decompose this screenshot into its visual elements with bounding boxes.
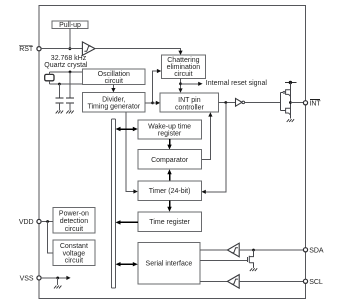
VDD pin	[19, 219, 41, 226]
crystal X1	[45, 72, 54, 84]
wire serial interface to SDA driver gate	[200, 259, 247, 261]
wire SDA line	[239, 249, 303, 251]
wire schmitt output to chattering block	[95, 49, 181, 52]
junction INT output branch	[224, 101, 227, 104]
svg-text:Time register: Time register	[149, 219, 190, 226]
wire divider to chattering / INT pin controller	[145, 71, 158, 103]
schmitt buffer U1 on RST line	[82, 42, 95, 55]
junction pull-up/RST	[69, 47, 72, 50]
arrow timer to time register	[167, 200, 171, 211]
transistor Q2 NMOS	[280, 108, 290, 115]
svg-text:circuit: circuit	[65, 258, 83, 265]
ground for C2	[66, 111, 73, 114]
wire divider to timer	[126, 112, 135, 191]
time register block	[138, 212, 202, 232]
svg-text:circuit: circuit	[105, 78, 123, 85]
capacitor C1	[55, 84, 63, 110]
timer block	[138, 181, 202, 201]
arrow timer to comparator	[167, 169, 171, 181]
oscillation circuit block	[83, 69, 145, 85]
wire crystal bottom to oscillation circuit	[49, 83, 82, 85]
svg-text:Timing generator: Timing generator	[87, 104, 140, 111]
svg-text:INT: INT	[309, 100, 321, 107]
svg-text:SDA: SDA	[309, 247, 324, 254]
INT pin controller block	[160, 93, 219, 112]
RST pin	[19, 45, 41, 53]
wire inverter to output stage	[245, 102, 281, 104]
svg-text:INT pin: INT pin	[178, 97, 201, 104]
constant voltage circuit block	[53, 240, 95, 266]
ground for SDA driver	[250, 268, 257, 271]
INT pin	[303, 99, 321, 107]
svg-text:circuit: circuit	[174, 71, 192, 78]
svg-text:SCL: SCL	[309, 279, 323, 286]
junction crystal bottom / C1	[58, 83, 61, 86]
wire serial interface to SDA schmitt	[200, 249, 228, 251]
VDD rail tick for INT driver	[285, 81, 296, 84]
junction crystal top / C2	[69, 71, 72, 74]
wire chattering to INT pin controller	[180, 78, 182, 89]
svg-text:Divider,: Divider,	[102, 96, 125, 103]
capacitor C2	[66, 72, 74, 111]
pull-up resistor block	[52, 21, 88, 29]
wire divider feed to INT pin controller	[153, 102, 157, 104]
junction VDD branch	[46, 220, 49, 223]
wire serial interface to SCL schmitt	[200, 280, 228, 282]
schmitt buffer U3 SDA input	[227, 243, 239, 257]
svg-text:Internal reset signal: Internal reset signal	[206, 80, 268, 87]
IC boundary box	[39, 6, 306, 299]
wire oscillation to divider	[112, 85, 114, 89]
svg-text:voltage: voltage	[63, 250, 86, 257]
wire pull-up to RST line	[69, 28, 71, 48]
ground for VSS	[54, 286, 61, 289]
transistor Q3 NMOS SDA driver	[247, 250, 253, 268]
wire output to INT pin	[290, 102, 303, 104]
svg-text:register: register	[158, 131, 182, 138]
data bus	[111, 119, 115, 288]
svg-text:Comparator: Comparator	[151, 157, 189, 164]
wire crystal top to oscillation circuit	[49, 71, 82, 73]
junction VSS ground	[56, 277, 59, 280]
svg-text:controller: controller	[175, 104, 204, 111]
wire comparator to INT pin controller	[201, 116, 210, 160]
svg-text:Chattering: Chattering	[167, 57, 199, 64]
svg-text:Power-on: Power-on	[59, 211, 89, 218]
wire VDD to constant voltage	[48, 222, 53, 254]
svg-text:Serial interface: Serial interface	[146, 261, 193, 268]
chattering elimination circuit block	[161, 55, 205, 78]
power-on detection circuit block	[53, 208, 95, 234]
svg-text:VDD: VDD	[19, 219, 34, 226]
VSS pin	[20, 275, 42, 282]
divider timing generator block	[83, 92, 145, 112]
svg-text:VSS: VSS	[20, 275, 34, 282]
junction output node	[289, 101, 292, 104]
svg-text:Oscillation: Oscillation	[98, 71, 130, 78]
svg-text:elimination: elimination	[167, 64, 201, 71]
wake-up time register block	[138, 120, 202, 139]
junction internal reset	[179, 82, 182, 85]
ground for C1	[56, 111, 63, 114]
time register to bus arrow	[116, 220, 138, 224]
svg-text:Wake-up time: Wake-up time	[148, 124, 191, 131]
wire VSS	[41, 277, 67, 279]
junction divider feed	[151, 102, 154, 105]
ground for output stage	[287, 119, 294, 122]
comparator block	[138, 150, 202, 170]
junction SDA driver	[252, 249, 255, 252]
schmitt buffer U4 SCL input	[227, 275, 239, 289]
wire INT pin controller to inverter	[219, 102, 236, 104]
svg-text:RST: RST	[19, 46, 34, 53]
svg-text:circuit: circuit	[65, 226, 83, 233]
svg-text:Constant: Constant	[60, 243, 88, 250]
svg-text:detection: detection	[60, 218, 89, 225]
arrow wake-up to comparator	[167, 139, 171, 150]
wire branch down to timer	[205, 103, 226, 192]
wire RST to schmitt input	[41, 48, 82, 50]
wire VDD to power-on detection	[41, 221, 53, 223]
SDA pin	[303, 247, 324, 254]
wire SCL line	[239, 280, 303, 282]
wire internal reset signal	[181, 83, 200, 85]
serial interface block	[138, 242, 200, 284]
svg-text:Pull-up: Pull-up	[59, 22, 81, 29]
inverter U2	[236, 98, 245, 106]
wire VSS to ground	[57, 278, 59, 285]
gate rail	[279, 92, 281, 110]
svg-text:32.768 kHz: 32.768 kHz	[51, 55, 87, 62]
svg-text:Quartz crystal: Quartz crystal	[44, 62, 88, 69]
bus to serial interface arrow	[116, 262, 138, 266]
output stage drain rail	[289, 83, 291, 119]
bus to wake-up register arrow	[116, 127, 138, 131]
svg-text:Timer (24-bit): Timer (24-bit)	[149, 188, 191, 195]
SCL pin	[303, 279, 323, 286]
transistor Q1 PMOS	[280, 90, 290, 97]
